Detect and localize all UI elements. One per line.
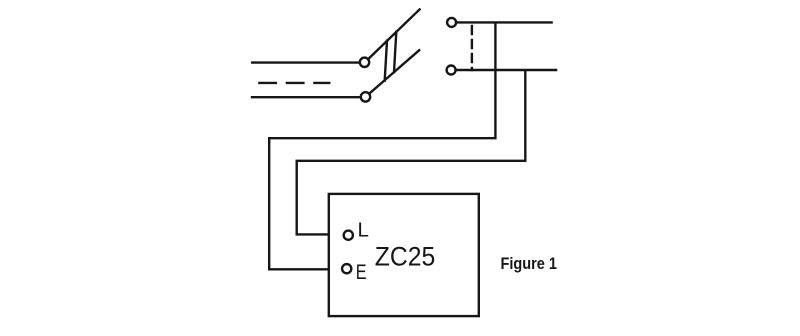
wire: cable outer sheath top conductor [252, 61, 359, 63]
switch S1 blade A (open, upper) [369, 9, 420, 58]
svg-text:L: L [358, 219, 369, 242]
svg-text:ZC25: ZC25 [375, 240, 436, 271]
wire: megger E lead (top wire down, left, down, to E terminal) [269, 24, 495, 270]
node: cable bottom terminal (switch hinge B) [361, 92, 370, 101]
wire: bottom jaw feed to right [456, 69, 556, 71]
wire: megger L lead (bottom wire down, left, down, to L terminal) [297, 71, 526, 234]
svg-text:E: E [356, 260, 367, 284]
svg-text:Figure 1: Figure 1 [501, 254, 558, 273]
switch S1 insulating tie-bar line 2 [394, 32, 396, 72]
node: switch jaw terminal A [447, 18, 456, 27]
terminal L of megger [344, 231, 353, 240]
wire: cable inner core (dashed) [259, 82, 329, 84]
link: gang coupling between jaws (dashed) [471, 26, 473, 70]
node: cable top terminal (switch hinge A) [360, 58, 369, 67]
switch S1 blade B (open, lower) [370, 50, 419, 93]
terminal E of megger [342, 264, 351, 273]
node: switch jaw terminal B [447, 66, 456, 75]
wire: top jaw feed to right [456, 21, 551, 23]
wire: cable outer sheath bottom conductor [252, 96, 360, 98]
megger ZC25 outline box [329, 194, 479, 316]
switch S1 insulating tie-bar line 1 [385, 41, 387, 81]
